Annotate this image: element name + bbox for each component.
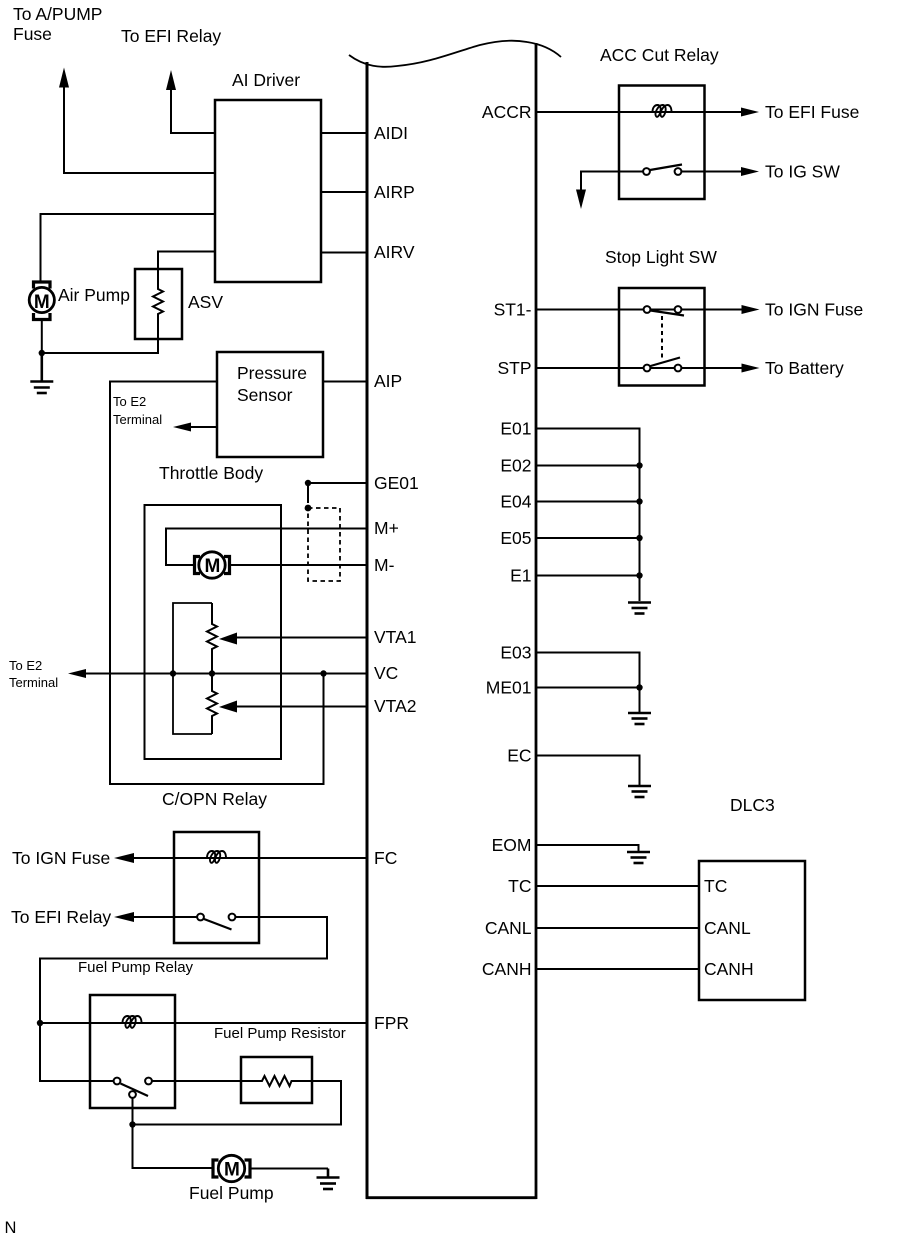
arrow wiper VTA1 [219,633,237,645]
svg-text:FC: FC [374,848,397,868]
svg-text:EC: EC [507,746,531,766]
contact FP relay right [145,1078,152,1085]
svg-text:To EFI Relay: To EFI Relay [11,907,111,927]
label Air Pump [58,285,130,305]
label AIP [374,371,402,391]
svg-text:M: M [34,292,50,313]
wire CANL [536,927,699,929]
wire M+ [166,529,368,566]
node air pump / ASV junction [39,350,45,356]
svg-text:To Battery: To Battery [765,358,844,378]
wire EC [536,756,640,786]
motor Fuel Pump [213,1155,250,1181]
label To A/PUMP Fuse [13,4,102,44]
svg-text:To IG SW: To IG SW [765,162,840,182]
node ME01 [636,684,642,690]
label STP [497,358,531,378]
ground ME01 [628,713,651,724]
label Throttle Body [159,463,263,483]
label To IGN Fuse [12,848,110,868]
svg-text:M+: M+ [374,518,399,538]
contact C/OPN right [229,914,236,921]
wire VTA1 [236,637,368,639]
contact ACC right [675,168,682,175]
svg-text:E02: E02 [500,456,531,476]
node E04 [636,498,642,504]
arrow left To E2 Terminal (lower) [68,669,86,678]
wire pressure sensor E2 [190,426,217,428]
svg-text:Sensor: Sensor [237,385,293,405]
ECU main box wavy top edge [349,41,561,67]
wire AIRP [321,191,368,193]
label VTA1 [374,627,416,647]
svg-text:GE01: GE01 [374,473,419,493]
svg-text:ST1-: ST1- [494,300,532,320]
switch arm ACC [650,165,682,171]
label To EFI Fuse [765,102,859,122]
wire To EFI Relay to contact [133,916,197,918]
svg-text:DLC3: DLC3 [730,795,775,815]
svg-text:To EFI Relay: To EFI Relay [121,26,221,46]
arrow up To EFI Relay [166,70,176,90]
arrow right To EFI Fuse [741,108,759,117]
wire GE01 to shield [307,483,309,503]
label M- [374,555,395,575]
wire AIP [323,381,368,383]
dashed link stop light switch [661,316,663,358]
svg-text:VTA1: VTA1 [374,627,416,647]
svg-text:M: M [205,556,221,577]
svg-text:TC: TC [508,876,531,896]
node E05 [636,535,642,541]
svg-text:ME01: ME01 [486,678,532,698]
Throttle Body outline [110,382,324,785]
svg-text:TC: TC [704,876,727,896]
label CANL (DLC3) [704,918,751,938]
label CANH [482,959,532,979]
wire AIDI [321,132,368,134]
wire C/OPN to fuel pump relay [40,917,327,1081]
label E03 [500,643,531,663]
label Fuel Pump [189,1183,274,1203]
coil ACC relay [653,105,672,117]
resistor VTA2 [207,674,217,735]
ground E chain [628,603,651,614]
svg-text:Pressure: Pressure [237,363,307,383]
label GE01 [374,473,419,493]
wire air pump to AI Driver [41,214,216,282]
contact ST1 right [675,306,682,313]
node VC branch [320,670,326,676]
switch arm ST1 [651,311,685,316]
svg-text:VC: VC [374,663,398,683]
svg-text:AIDI: AIDI [374,123,408,143]
label TC [508,876,531,896]
svg-text:To IGN Fuse: To IGN Fuse [12,848,110,868]
contact ST1 left [644,306,651,313]
svg-text:E1: E1 [510,566,531,586]
switch arm C/OPN [204,919,232,930]
label EC [507,746,531,766]
arrow wiper VTA2 [219,701,237,713]
svg-text:CANL: CANL [704,918,751,938]
wire VC [86,673,368,675]
label ACCR [482,102,532,122]
label Stop Light SW [605,247,717,267]
label ASV [188,292,223,312]
coil fuel pump relay [123,1016,142,1028]
wire E1 [536,575,640,577]
Pressure Sensor box [217,352,323,457]
wire ACCR [536,111,742,113]
wire motor to ground [250,1168,328,1170]
svg-text:Fuel Pump Relay: Fuel Pump Relay [78,959,194,976]
node FPR branch [37,1020,43,1026]
svg-text:Fuel Pump Resistor: Fuel Pump Resistor [214,1025,346,1042]
ground fuel pump [317,1169,340,1190]
svg-text:Throttle Body: Throttle Body [159,463,263,483]
resistor ASV [153,269,163,339]
svg-text:CANL: CANL [485,918,532,938]
node pot wiper [209,670,215,676]
wire EOM [536,845,639,851]
wire ME01 [536,687,640,689]
svg-text:C/OPN Relay: C/OPN Relay [162,789,267,809]
ASV box [135,269,182,339]
contact STP left [644,365,651,372]
contact FP relay lower [129,1091,136,1098]
svg-text:CANH: CANH [704,959,754,979]
wire junction to ASV [42,339,158,353]
resistor fuel pump [241,1076,312,1086]
contact ACC left [643,168,650,175]
svg-text:Air Pump: Air Pump [58,285,130,305]
wire ASV to AI Driver [158,252,215,270]
ECU bottom edge [366,1196,537,1199]
svg-text:AIRP: AIRP [374,182,415,202]
motor throttle [195,552,230,578]
label To E2 Terminal (lower) [9,658,58,690]
AI Driver box [215,100,321,282]
svg-text:E05: E05 [500,528,531,548]
label AIDI [374,123,408,143]
label ST1- [494,300,532,320]
svg-text:ACCR: ACCR [482,102,532,122]
svg-text:E03: E03 [500,643,531,663]
wire FP contact to resistor [152,1080,241,1082]
coil C/OPN relay [207,851,226,863]
wire CANH [536,968,699,970]
svg-text:E01: E01 [500,419,531,439]
svg-text:ACC Cut Relay: ACC Cut Relay [600,45,719,65]
node fuel pump motor junction [129,1121,135,1127]
label AIRP [374,182,415,202]
svg-text:Terminal: Terminal [9,675,58,690]
label CANH (DLC3) [704,959,754,979]
svg-text:To A/PUMP: To A/PUMP [13,4,102,24]
node GE01 dot [305,480,311,486]
svg-text:STP: STP [497,358,531,378]
svg-text:AIP: AIP [374,371,402,391]
svg-text:N: N [5,1219,17,1237]
node E02 [636,462,642,468]
label ACC Cut Relay [600,45,719,65]
label Fuel Pump Relay [78,959,194,976]
svg-text:VTA2: VTA2 [374,696,416,716]
arrow left To EFI Relay [114,912,134,922]
wire ACC switch out [682,171,743,173]
label E01 [500,419,531,439]
label ME01 [486,678,532,698]
svg-text:M-: M- [374,555,395,575]
label TC (DLC3) [704,876,727,896]
svg-text:E04: E04 [500,492,531,512]
label AI Driver [232,70,300,90]
svg-text:ASV: ASV [188,292,223,312]
wire ACC switch with down arrow [581,172,643,192]
node shield top dot [305,505,312,512]
Fuel Pump Resistor box [241,1057,312,1103]
label E05 [500,528,531,548]
wire E02 [536,465,640,467]
wire ST1- [536,309,742,311]
wire air pump to junction [41,320,43,354]
ground EOM [627,852,650,863]
switch arm STP [651,358,681,367]
arrow right To IGN Fuse [742,305,760,314]
label C/OPN Relay [162,789,267,809]
node pot left [170,670,176,676]
switch arm FP relay [121,1084,149,1097]
wire STP [536,367,742,369]
svg-text:AIRV: AIRV [374,242,415,262]
svg-text:To E2: To E2 [113,394,146,409]
svg-text:To EFI Fuse: To EFI Fuse [765,102,859,122]
wire A/PUMP fuse to AI Driver [64,86,215,173]
label To IG SW [765,162,840,182]
arrow up To A/PUMP Fuse [59,68,69,88]
wire resistor return [133,1081,342,1125]
wire M- [230,564,368,566]
wire EFI relay to AI Driver [171,88,215,133]
label VTA2 [374,696,416,716]
wire FC [133,857,368,859]
contact FP relay left [114,1078,121,1085]
wire E05 [536,537,640,539]
wire FP common to motor [133,1098,214,1168]
Stop Light SW box [619,288,705,386]
svg-text:Stop Light SW: Stop Light SW [605,247,717,267]
C/OPN relay box [174,832,259,943]
wire GE01 [308,482,368,484]
potentiometer box [173,603,212,734]
wire VTA2 [236,706,368,708]
label E1 [510,566,531,586]
label To EFI Relay (relay) [11,907,111,927]
label N [5,1219,17,1237]
arrow left To E2 Terminal (upper) [173,423,191,432]
arrow left To IGN Fuse [114,853,134,863]
svg-text:AI Driver: AI Driver [232,70,300,90]
wire E03 [536,653,640,713]
label Pressure Sensor [237,363,307,405]
label To E2 Terminal (upper) [113,394,162,427]
resistor VTA1 [207,603,217,674]
ACC Cut Relay box [619,86,705,200]
svg-text:CANH: CANH [482,959,532,979]
node E1 [636,572,642,578]
svg-text:M: M [224,1160,240,1181]
label E04 [500,492,531,512]
arrow right To IG SW [741,167,759,176]
ECU left edge [366,62,369,1199]
label To IGN Fuse (right) [765,300,863,320]
Fuel Pump Relay box [90,995,175,1108]
label AIRV [374,242,415,262]
svg-text:Fuel Pump: Fuel Pump [189,1183,274,1203]
wire TC [536,885,699,887]
arrow down ACC [576,190,586,210]
label To Battery [765,358,844,378]
shield dashed box [308,508,340,581]
svg-text:To E2: To E2 [9,658,42,673]
label CANL [485,918,532,938]
contact STP right [675,365,682,372]
ECU right edge [535,43,538,1199]
label FPR [374,1013,409,1033]
label Fuel Pump Resistor [214,1025,346,1042]
label To EFI Relay [121,26,221,46]
wire FPR [40,1022,368,1024]
ground air pump [30,353,53,393]
wire AIRV [321,252,368,254]
svg-text:To IGN Fuse: To IGN Fuse [765,300,863,320]
svg-text:Terminal: Terminal [113,412,162,427]
svg-text:Fuse: Fuse [13,24,52,44]
motor Air Pump [29,282,54,320]
arrow right To Battery [742,364,760,373]
label M+ [374,518,399,538]
DLC3 box [699,861,805,1000]
svg-text:FPR: FPR [374,1013,409,1033]
ground EC [628,786,651,797]
wire E04 [536,501,640,503]
label E02 [500,456,531,476]
svg-text:EOM: EOM [492,835,532,855]
label EOM [492,835,532,855]
label FC [374,848,397,868]
label VC [374,663,398,683]
wire E01 [536,429,640,602]
label DLC3 [730,795,775,815]
contact C/OPN left [197,914,204,921]
throttle inner box [145,505,282,759]
